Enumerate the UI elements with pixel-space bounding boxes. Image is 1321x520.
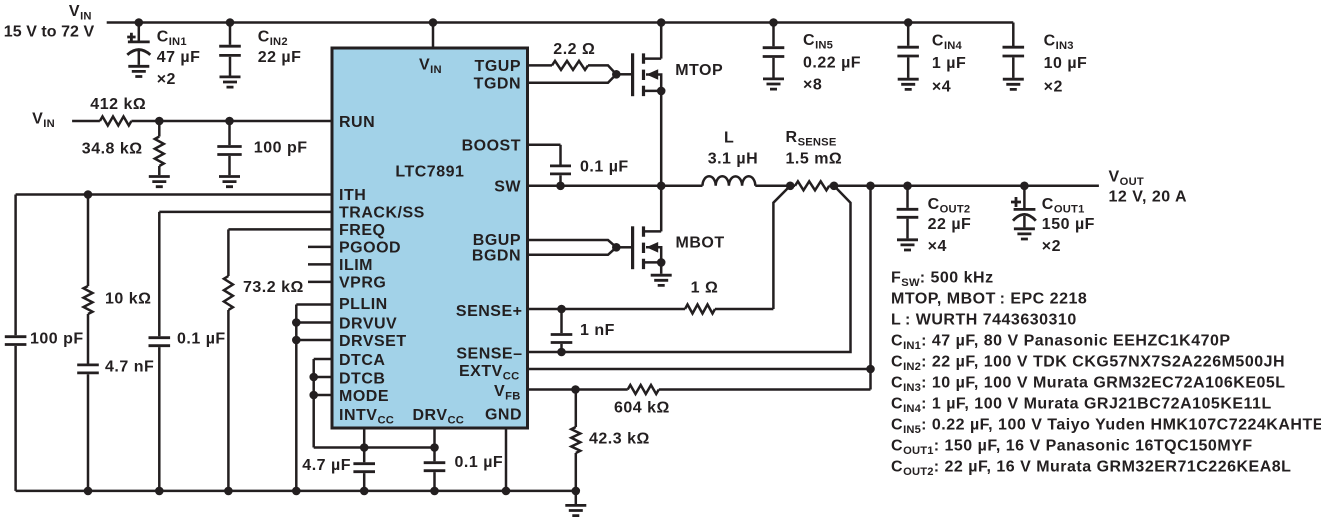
svg-text:1 nF: 1 nF (580, 322, 615, 339)
svg-text:COUT2: COUT2 (928, 196, 971, 216)
svg-text:MTOP, MBOT : EPC 2218: MTOP, MBOT : EPC 2218 (891, 291, 1087, 308)
svg-text:L : WURTH 7443630310: L : WURTH 7443630310 (891, 312, 1077, 329)
svg-text:×4: ×4 (932, 79, 951, 96)
svg-text:MBOT: MBOT (676, 235, 725, 252)
svg-text:RSENSE: RSENSE (786, 129, 837, 149)
svg-text:42.3 kΩ: 42.3 kΩ (589, 431, 650, 448)
svg-text:FREQ: FREQ (339, 222, 385, 239)
svg-text:MTOP: MTOP (675, 62, 723, 79)
svg-text:DRVSET: DRVSET (339, 333, 407, 350)
svg-text:0.1 µF: 0.1 µF (177, 331, 226, 348)
svg-text:47 µF: 47 µF (157, 49, 201, 66)
svg-text:DTCA: DTCA (339, 352, 385, 369)
svg-text:22 µF: 22 µF (258, 49, 302, 66)
svg-text:0.1 µF: 0.1 µF (455, 454, 504, 471)
svg-text:GND: GND (485, 406, 522, 423)
svg-text:0.22 µF: 0.22 µF (803, 54, 861, 71)
svg-text:100 pF: 100 pF (30, 331, 84, 348)
svg-text:CIN2: 22 µF, 100 V TDK CKG57NX: CIN2: 22 µF, 100 V TDK CKG57NX7S2A226M50… (891, 354, 1285, 374)
svg-text:RUN: RUN (339, 114, 375, 131)
svg-text:2.2 Ω: 2.2 Ω (553, 41, 595, 58)
svg-text:34.8 kΩ: 34.8 kΩ (82, 141, 143, 158)
svg-text:MODE: MODE (339, 388, 389, 405)
svg-text:1 Ω: 1 Ω (691, 280, 719, 297)
svg-text:DTCB: DTCB (339, 370, 385, 387)
svg-text:12 V, 20 A: 12 V, 20 A (1109, 189, 1188, 206)
svg-text:TGDN: TGDN (474, 76, 521, 93)
svg-text:VPRG: VPRG (339, 275, 386, 292)
svg-text:CIN1: CIN1 (157, 29, 187, 49)
svg-text:COUT2: 22 µF, 16 V Murata GRM3: COUT2: 22 µF, 16 V Murata GRM32ER71C226K… (891, 459, 1291, 479)
svg-text:TRACK/SS: TRACK/SS (339, 205, 425, 222)
svg-text:VOUT: VOUT (1109, 169, 1144, 189)
svg-text:4.7 µF: 4.7 µF (302, 457, 351, 474)
svg-text:CIN3: CIN3 (1044, 33, 1074, 53)
svg-text:PLLIN: PLLIN (339, 296, 388, 313)
svg-text:22 µF: 22 µF (928, 216, 972, 233)
svg-text:0.1 µF: 0.1 µF (580, 158, 629, 175)
svg-text:BGDN: BGDN (472, 248, 521, 265)
svg-text:1 µF: 1 µF (932, 55, 966, 72)
svg-text:SENSE–: SENSE– (456, 345, 522, 362)
svg-text:×2: ×2 (157, 71, 176, 88)
svg-text:1.5 mΩ: 1.5 mΩ (786, 150, 843, 167)
svg-text:73.2 kΩ: 73.2 kΩ (243, 279, 304, 296)
svg-text:×2: ×2 (1042, 238, 1061, 255)
svg-text:COUT1: 150 µF, 16 V Panasonic: COUT1: 150 µF, 16 V Panasonic 16TQC150MY… (891, 438, 1253, 458)
svg-text:TGUP: TGUP (475, 58, 521, 75)
svg-text:CIN3: 10 µF, 100 V Murata GRM3: CIN3: 10 µF, 100 V Murata GRM32EC72A106K… (891, 375, 1286, 395)
svg-text:CIN1: 47 µF, 80 V Panasonic EE: CIN1: 47 µF, 80 V Panasonic EEHZC1K470P (891, 333, 1231, 353)
svg-text:COUT1: COUT1 (1042, 196, 1085, 216)
svg-text:BGUP: BGUP (473, 232, 521, 249)
svg-text:DRVUV: DRVUV (339, 316, 397, 333)
svg-text:×4: ×4 (928, 238, 947, 255)
svg-text:604 kΩ: 604 kΩ (614, 399, 670, 416)
svg-text:×2: ×2 (1044, 79, 1063, 96)
svg-text:CIN4: 1 µF, 100 V Murata GRJ21: CIN4: 1 µF, 100 V Murata GRJ21BC72A105KE… (891, 396, 1272, 416)
svg-text:×8: ×8 (803, 76, 822, 93)
svg-text:ITH: ITH (339, 187, 366, 204)
svg-text:3.1 µH: 3.1 µH (708, 150, 758, 167)
svg-text:CIN5: 0.22 µF, 100 V Taiyo Yud: CIN5: 0.22 µF, 100 V Taiyo Yuden HMK107C… (891, 417, 1321, 437)
svg-text:CIN5: CIN5 (803, 32, 833, 52)
svg-text:SW: SW (494, 179, 521, 196)
svg-text:10 µF: 10 µF (1044, 55, 1088, 72)
svg-text:10 kΩ: 10 kΩ (105, 291, 151, 308)
svg-text:VIN: VIN (32, 110, 55, 129)
svg-text:100 pF: 100 pF (254, 140, 308, 157)
svg-text:150 µF: 150 µF (1042, 216, 1095, 233)
svg-text:L: L (724, 130, 734, 147)
svg-text:VIN: VIN (69, 3, 92, 23)
svg-text:CIN4: CIN4 (932, 33, 963, 53)
svg-text:412 kΩ: 412 kΩ (90, 96, 146, 113)
svg-text:15 V to 72 V: 15 V to 72 V (4, 24, 95, 41)
svg-text:4.7 nF: 4.7 nF (105, 359, 154, 376)
svg-text:BOOST: BOOST (462, 138, 521, 155)
svg-text:PGOOD: PGOOD (339, 240, 401, 257)
svg-text:ILIM: ILIM (339, 257, 373, 274)
svg-text:SENSE+: SENSE+ (456, 303, 523, 320)
svg-text:CIN2: CIN2 (258, 29, 288, 49)
svg-text:FSW: 500 kHz: FSW: 500 kHz (891, 270, 994, 290)
svg-text:LTC7891: LTC7891 (395, 164, 464, 181)
